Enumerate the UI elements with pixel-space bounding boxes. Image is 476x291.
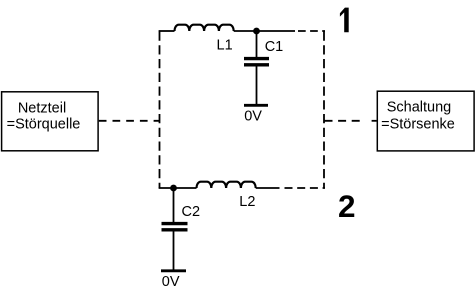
wire: bottom edge from corner to L2: [159, 187, 197, 189]
node: junction 1 (L1/C1): [253, 28, 260, 35]
label C1: [265, 39, 284, 55]
ground: 0V rail for C1: [244, 104, 268, 107]
svg-text:C1: C1: [265, 39, 284, 55]
node label 1 (line 1 of filter): [340, 8, 349, 33]
wire: top edge from corner to L1: [159, 30, 175, 32]
svg-text:2: 2: [338, 188, 356, 224]
wire: dashed top-right segment to corner: [298, 30, 325, 32]
svg-text:0V: 0V: [162, 274, 180, 290]
label 0V (bottom ground): [162, 274, 180, 290]
svg-text:C2: C2: [182, 204, 201, 220]
label L2: [239, 194, 255, 210]
block: Netzteil =Störquelle (noise source): [2, 92, 99, 151]
capacitor C2: [162, 188, 188, 270]
label 0V (top ground): [244, 108, 262, 124]
svg-text:Netzteil: Netzteil: [18, 100, 66, 116]
svg-text:L1: L1: [217, 37, 233, 53]
svg-text:=Störquelle: =Störquelle: [7, 116, 81, 132]
node: junction 2 (L2/C2): [170, 185, 177, 192]
wire: dashed connection Netzteil to filter (left): [99, 120, 160, 122]
label L1: [217, 37, 233, 53]
wire: L1 to node 1 and onward: [234, 30, 295, 32]
svg-text:L2: L2: [239, 194, 255, 210]
capacitor C1: [244, 31, 269, 105]
wire: dashed left edge of filter boundary: [159, 32, 161, 189]
wire: dashed connection filter to Schaltung (right): [325, 120, 377, 122]
node label 2 (line 2 of filter): [338, 188, 356, 224]
wire: dashed right edge of filter boundary: [323, 32, 325, 189]
svg-text:=Störsenke: =Störsenke: [381, 116, 455, 132]
svg-text:Schaltung: Schaltung: [387, 100, 452, 116]
inductor L1: [175, 25, 234, 31]
inductor L2: [197, 182, 256, 188]
wire: L2 to dashed section: [256, 187, 280, 189]
wire: dashed bottom-right segment to corner: [285, 187, 326, 189]
block: Schaltung =Störsenke (noise sink): [377, 91, 474, 151]
svg-text:0V: 0V: [244, 108, 262, 124]
ground: 0V rail for C2: [161, 269, 186, 272]
label C2: [182, 204, 201, 220]
